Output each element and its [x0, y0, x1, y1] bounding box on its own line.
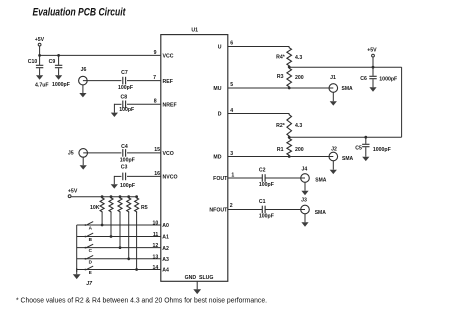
svg-text:8: 8: [154, 99, 157, 105]
connector J3 SMA: [301, 198, 310, 214]
svg-text:VCC: VCC: [163, 54, 174, 60]
wire VCC rail to U1 pin 9: [39, 54, 161, 56]
wire resistor 5 to switch line: [136, 213, 138, 270]
junction on line A3: [127, 257, 130, 260]
svg-text:11: 11: [153, 232, 159, 238]
svg-text:J5: J5: [68, 150, 74, 156]
svg-text:+5V: +5V: [68, 188, 78, 194]
junction resistor R5 element 4 top: [127, 195, 130, 198]
wire resistor 4 to switch line: [128, 213, 130, 259]
junction resistor R5 element 1 top: [101, 195, 104, 198]
svg-text:R5: R5: [141, 205, 148, 211]
junction R1 bottom on MD line: [288, 155, 291, 158]
capacitor C10 4.7uF: [36, 55, 43, 67]
svg-text:C10: C10: [28, 59, 38, 65]
wire U1 pin 1 to C2: [228, 177, 262, 179]
svg-text:4.3: 4.3: [295, 123, 302, 129]
wire J5 to C4: [83, 152, 121, 154]
junction R4/R3: [288, 66, 291, 69]
junction on line A0: [101, 224, 104, 227]
junction R3 bottom on MU line: [288, 87, 291, 90]
wire resistor 2 to switch line: [110, 213, 112, 237]
svg-text:Evaluation PCB Circuit: Evaluation PCB Circuit: [33, 6, 126, 18]
svg-text:+5V: +5V: [367, 47, 377, 53]
wire switch line D (bus to U1 pin 13): [77, 258, 161, 260]
junction on line A1: [110, 235, 113, 238]
svg-text:1000pF: 1000pF: [373, 147, 391, 153]
switch B blade: [84, 233, 93, 237]
svg-text:J3: J3: [301, 198, 307, 204]
svg-text:R2*: R2*: [276, 123, 286, 129]
wire U1 pin 8 to C8: [127, 103, 161, 105]
resistor R5 element 3: [118, 197, 122, 213]
svg-text:16: 16: [154, 171, 160, 177]
wire bottom rail to R2/R1 junction: [289, 136, 401, 138]
wire switch bus: [76, 225, 78, 272]
svg-text:6: 6: [230, 41, 233, 47]
svg-text:C3: C3: [121, 164, 128, 170]
switch C blade: [84, 244, 93, 248]
svg-text:* Choose values of R2 & R4 bet: * Choose values of R2 & R4 between 4.3 a…: [16, 296, 267, 305]
svg-text:VCO: VCO: [163, 151, 174, 157]
resistor R4* 4.3: [287, 47, 292, 68]
svg-text:+5V: +5V: [35, 37, 45, 43]
svg-text:7: 7: [153, 75, 156, 81]
wire C8 to ground corner: [114, 103, 121, 105]
svg-text:SMA: SMA: [315, 210, 327, 216]
wire U1 pin 2 to C1: [228, 209, 262, 211]
capacitor C9 1000pF: [55, 55, 62, 67]
svg-text:A1: A1: [162, 235, 169, 241]
svg-text:2: 2: [230, 203, 233, 209]
connector J5 SMA: [68, 149, 88, 158]
capacitor C8 100pF: [122, 101, 124, 109]
node +5V (right): [367, 47, 377, 57]
resistor R3 200: [287, 67, 292, 88]
ground below C6: [372, 79, 374, 87]
svg-text:MU: MU: [213, 86, 221, 92]
ground for C3: [113, 176, 115, 184]
svg-text:10K: 10K: [90, 205, 100, 211]
junction C5 tap: [364, 136, 367, 139]
wire C3 to ground corner: [114, 175, 121, 177]
ground below J5: [82, 157, 84, 165]
resistor R1 200: [287, 137, 292, 156]
svg-text:NVCO: NVCO: [163, 175, 178, 181]
svg-text:C8: C8: [120, 94, 127, 100]
node +5V (top left): [35, 37, 45, 46]
svg-text:C5: C5: [355, 145, 362, 151]
ground below J4: [304, 182, 306, 191]
capacitor C3 100pF: [122, 173, 124, 181]
ground below J1: [332, 92, 334, 101]
connector J1 SMA: [329, 75, 338, 92]
svg-text:R4*: R4*: [276, 55, 286, 61]
node +5V (lower left): [68, 188, 78, 197]
svg-text:J4: J4: [302, 166, 308, 172]
wire switch line C (bus to U1 pin 12): [77, 247, 161, 249]
svg-text:C4: C4: [121, 144, 128, 150]
junction resistor R5 element 3 top: [119, 195, 122, 198]
svg-text:GND SLUG: GND SLUG: [185, 275, 214, 281]
svg-text:200: 200: [295, 147, 304, 153]
junction C9 tap: [57, 54, 60, 57]
svg-text:J1: J1: [330, 75, 336, 81]
wire +5V to rail: [372, 57, 374, 67]
ground below J6: [82, 85, 84, 93]
wire switch line E (bus to U1 pin 14): [77, 269, 161, 271]
svg-text:NFOUT: NFOUT: [209, 207, 228, 213]
svg-text:J6: J6: [81, 67, 87, 73]
svg-text:100pF: 100pF: [120, 157, 135, 163]
connector J4 SMA: [301, 166, 310, 182]
wire +5V to resistor bank rail: [71, 196, 136, 198]
wire resistor 3 to switch line: [119, 213, 121, 248]
svg-text:4.7uF: 4.7uF: [35, 82, 49, 88]
svg-text:100pF: 100pF: [259, 213, 274, 219]
ground J7 bus: [76, 268, 78, 274]
ground below U1 slug: [196, 281, 198, 289]
wire U1 pin 6 to R4: [228, 46, 289, 48]
junction resistor R5 element 2 top: [110, 195, 113, 198]
svg-text:10: 10: [153, 221, 159, 227]
svg-text:MD: MD: [213, 155, 221, 161]
connector J6 SMA: [79, 67, 88, 85]
resistor R5 element 4: [127, 197, 131, 213]
ground for C8: [113, 104, 115, 113]
capacitor C1 100pF: [261, 206, 263, 214]
wire C2 to J4: [265, 177, 305, 179]
ground below C5: [365, 147, 367, 157]
svg-text:J2: J2: [331, 146, 337, 152]
svg-text:9: 9: [154, 50, 157, 56]
svg-text:E: E: [89, 270, 92, 275]
svg-text:14: 14: [153, 265, 159, 271]
junction C6 tap: [372, 66, 375, 69]
switch E blade: [84, 266, 93, 270]
svg-text:C9: C9: [49, 59, 56, 65]
junction resistor R5 element 5 top: [135, 195, 138, 198]
svg-text:SMA: SMA: [315, 178, 327, 184]
capacitor C4 100pF: [122, 149, 124, 157]
svg-text:A0: A0: [162, 223, 169, 229]
wire C4 to U1 pin 15: [127, 152, 161, 154]
svg-text:15: 15: [154, 147, 160, 153]
ground below J2: [332, 161, 334, 170]
wire +5V terminal to VCC rail: [39, 46, 41, 55]
switch D blade: [84, 255, 93, 259]
op IC U1 body: [161, 35, 228, 282]
svg-text:100pF: 100pF: [119, 107, 134, 113]
ground below C9: [58, 68, 60, 75]
capacitor C7 100pF: [122, 77, 124, 85]
svg-text:R3: R3: [277, 74, 284, 80]
svg-text:4: 4: [230, 108, 233, 114]
junction on line A4: [135, 268, 138, 271]
ground below C10: [39, 68, 41, 75]
junction C10 tap: [38, 54, 41, 57]
svg-text:SMA: SMA: [342, 86, 354, 92]
svg-text:100pF: 100pF: [259, 182, 274, 188]
resistor R5 element 5: [135, 197, 139, 213]
switch A blade: [84, 222, 93, 226]
wire U1 pin 4 to R2: [228, 113, 289, 115]
wire right rail vertical: [401, 67, 403, 137]
svg-text:C7: C7: [121, 70, 128, 76]
svg-text:100pF: 100pF: [120, 183, 135, 189]
svg-text:REF: REF: [163, 79, 173, 85]
ground below J3: [304, 214, 306, 223]
svg-text:A4: A4: [162, 268, 169, 274]
svg-text:100pF: 100pF: [118, 85, 133, 91]
wire switch line A (bus to U1 pin 10): [77, 224, 161, 226]
wire switch line B (bus to U1 pin 11): [77, 236, 161, 238]
svg-text:U1: U1: [191, 28, 198, 34]
junction R2/R1: [288, 136, 291, 139]
svg-text:200: 200: [295, 75, 304, 81]
resistor R5 element 1: [100, 197, 104, 213]
svg-text:NREF: NREF: [163, 103, 177, 109]
capacitor C6 1000pF: [369, 67, 376, 79]
svg-text:R1: R1: [277, 147, 284, 153]
svg-text:1000pF: 1000pF: [52, 82, 70, 88]
capacitor C2 100pF: [261, 174, 263, 182]
svg-text:12: 12: [153, 243, 159, 249]
junction on line A2: [119, 246, 122, 249]
wire R4/R3 junction to right rail corner: [289, 66, 401, 68]
connector J2 SMA: [329, 146, 338, 161]
wire C1 to J3: [265, 209, 305, 211]
resistor R2* 4.3: [287, 114, 292, 138]
capacitor C5 1000pF: [362, 137, 369, 147]
svg-text:FOUT: FOUT: [213, 176, 228, 182]
svg-text:C2: C2: [259, 168, 266, 174]
svg-text:SMA: SMA: [342, 156, 354, 162]
svg-text:4.3: 4.3: [295, 55, 302, 61]
svg-text:A3: A3: [162, 257, 169, 263]
wire U1 pin 3 to J2: [228, 156, 333, 158]
svg-text:5: 5: [230, 82, 233, 88]
svg-text:D: D: [218, 111, 222, 117]
svg-text:13: 13: [153, 254, 159, 260]
wire U1 pin 5 to J1: [228, 87, 333, 89]
svg-text:C1: C1: [259, 199, 266, 205]
svg-text:1000pF: 1000pF: [379, 77, 397, 83]
svg-text:U: U: [218, 44, 222, 50]
wire J6 to C7: [83, 80, 122, 82]
wire U1 pin 16 to C3: [127, 175, 161, 177]
svg-text:C6: C6: [360, 76, 367, 82]
resistor R5 element 2: [109, 197, 113, 213]
svg-text:A2: A2: [162, 246, 169, 252]
wire resistor 1 to switch line: [101, 213, 103, 225]
wire C7 to U1 pin 7: [127, 80, 161, 82]
